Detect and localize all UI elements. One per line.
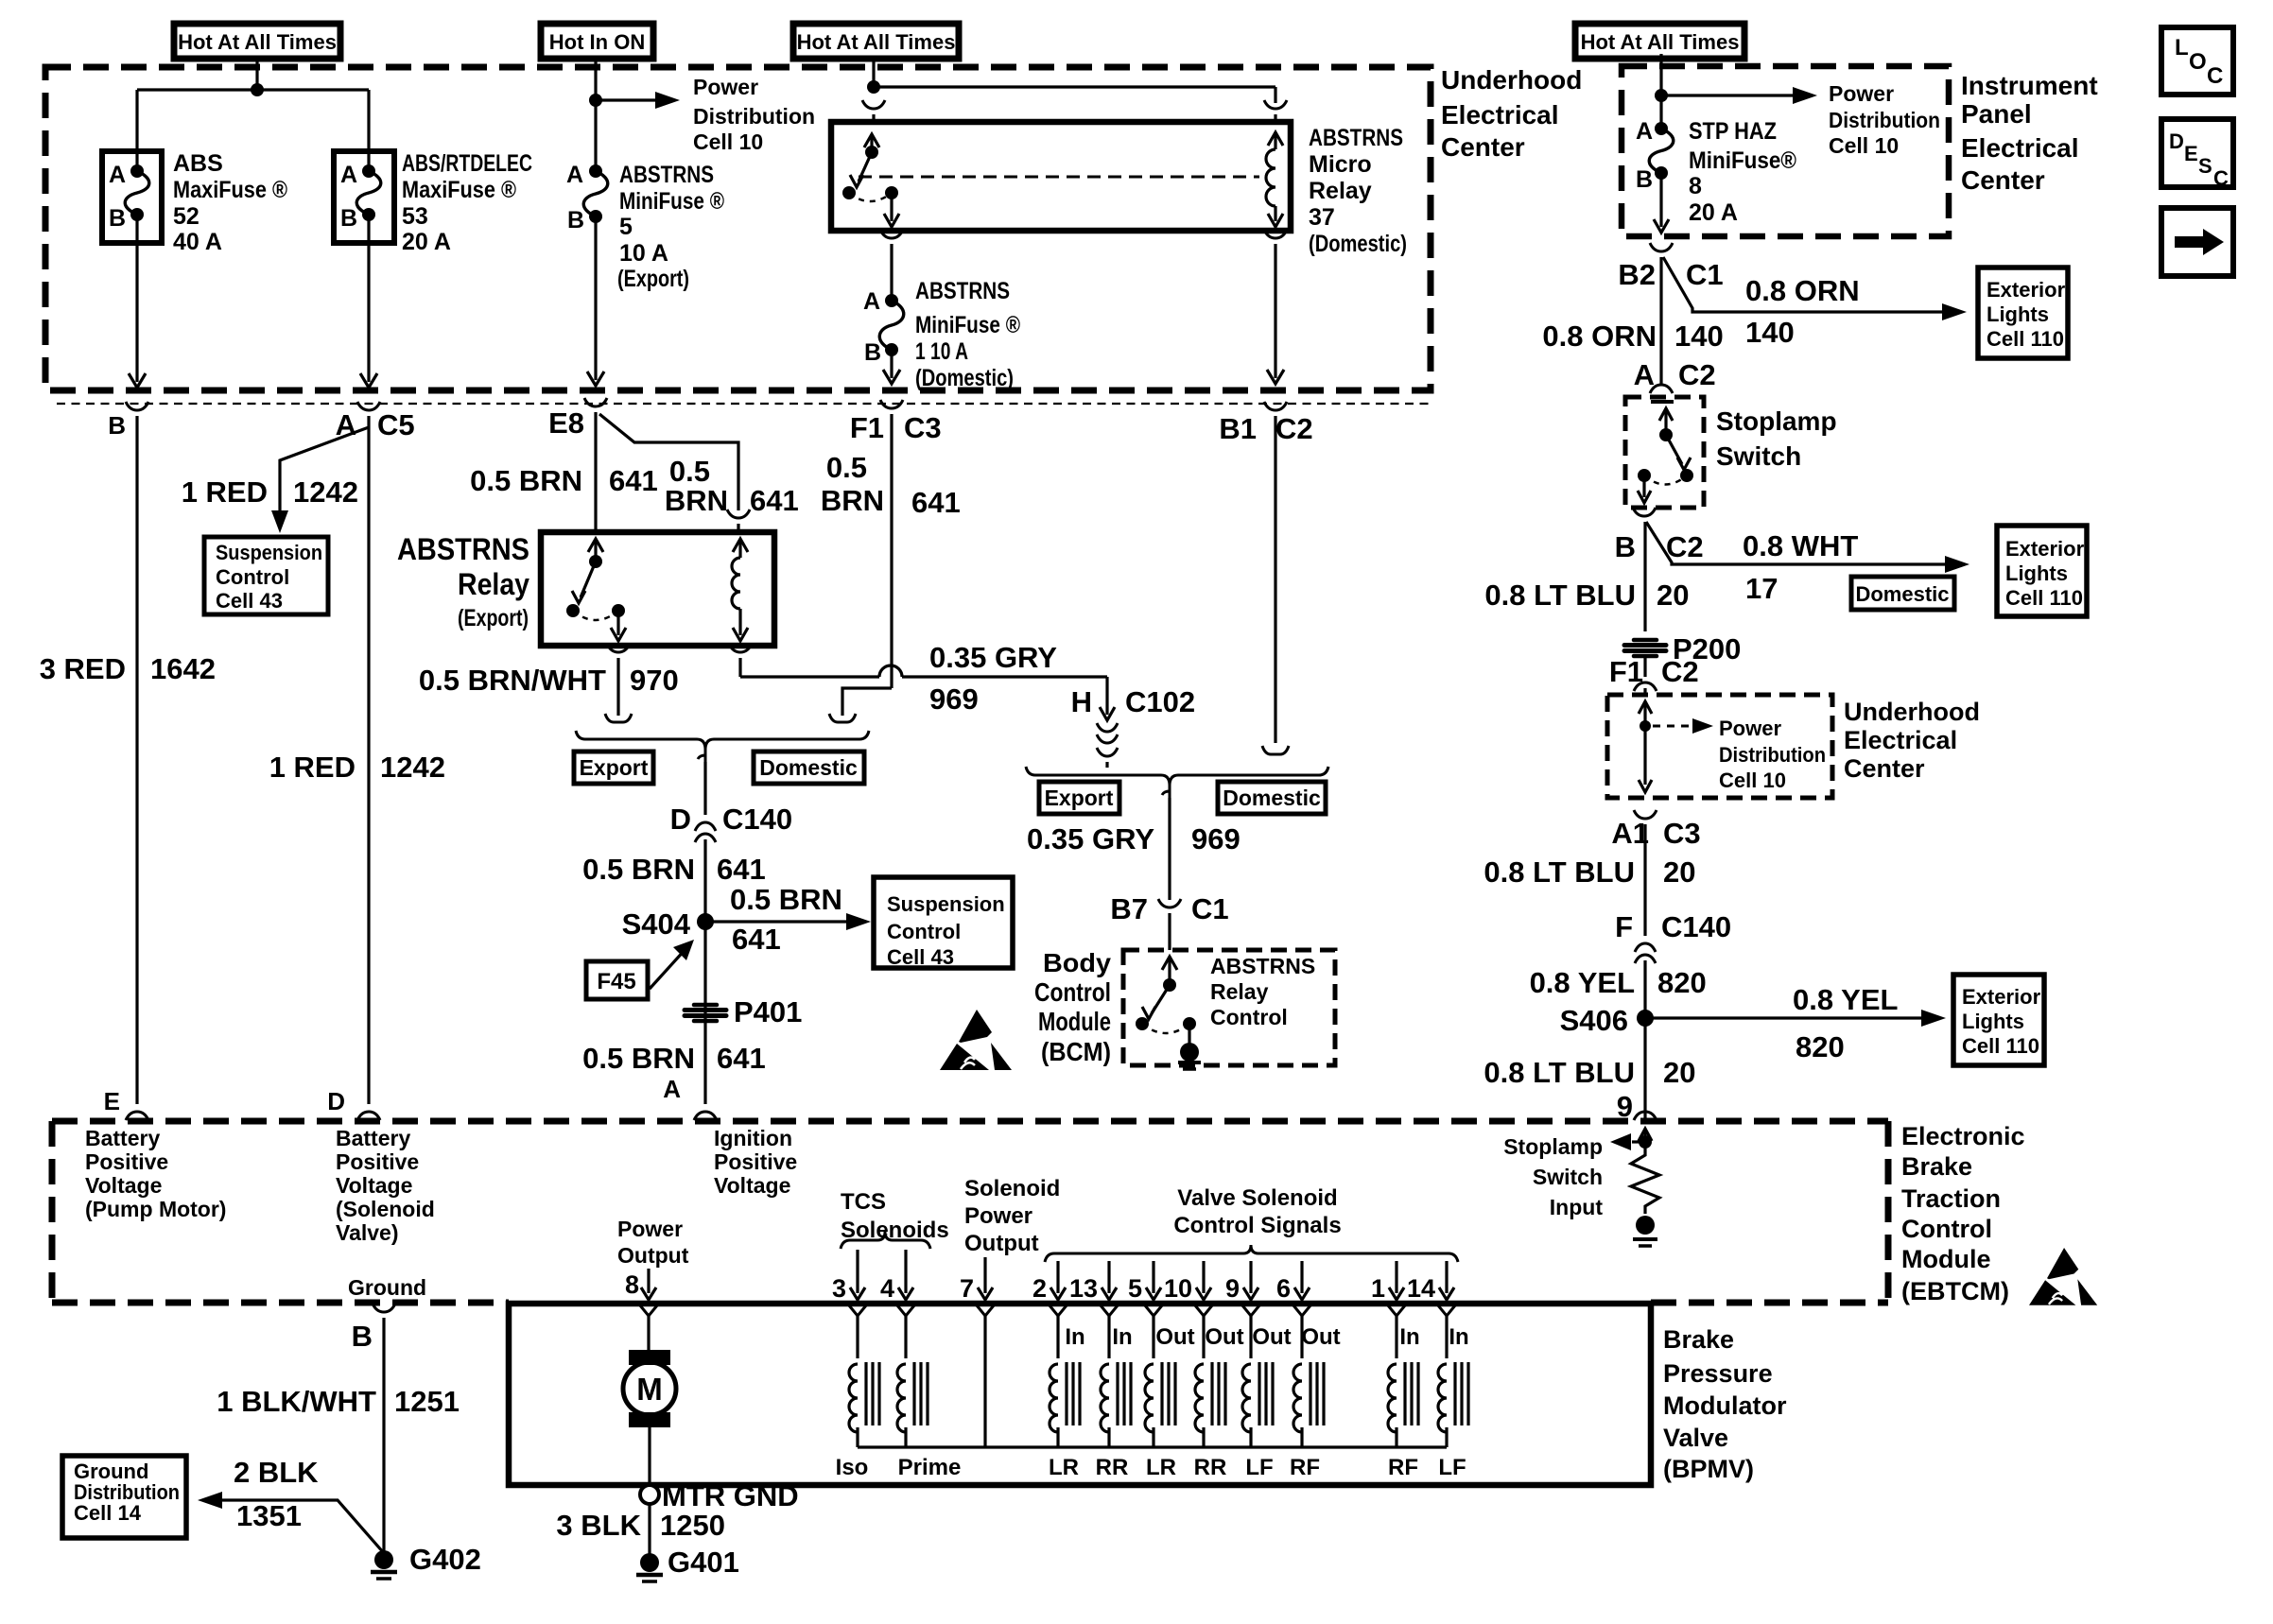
svg-text:C2: C2 [1661,655,1699,688]
svg-text:F: F [1615,910,1633,943]
svg-text:Electrical: Electrical [1844,726,1957,754]
svg-text:(Domestic): (Domestic) [915,365,1014,391]
svg-text:Exterior: Exterior [2005,537,2085,561]
svg-text:13: 13 [1069,1274,1098,1303]
svg-text:Relay: Relay [1309,178,1372,204]
svg-text:Ground: Ground [348,1275,426,1300]
svg-text:Electrical: Electrical [1441,100,1559,130]
svg-text:140: 140 [1674,320,1724,353]
svg-text:(Domestic): (Domestic) [1309,231,1407,257]
svg-text:Out: Out [1205,1324,1243,1350]
svg-text:ABS: ABS [173,150,223,177]
svg-text:20 A: 20 A [1689,199,1738,226]
svg-text:Hot At All Times: Hot At All Times [1581,30,1740,54]
svg-text:Hot In ON: Hot In ON [549,30,645,54]
svg-text:5: 5 [1128,1274,1142,1303]
svg-text:0.5 BRN/WHT: 0.5 BRN/WHT [419,664,606,697]
svg-text:820: 820 [1796,1030,1845,1063]
svg-text:Out: Out [1252,1324,1291,1350]
svg-text:B7: B7 [1110,892,1148,925]
svg-text:C1: C1 [1686,258,1724,291]
svg-text:LR: LR [1146,1455,1176,1480]
svg-text:E: E [2184,142,2198,165]
svg-text:641: 641 [732,923,781,956]
svg-text:0.8 YEL: 0.8 YEL [1793,983,1898,1016]
svg-text:2: 2 [1032,1274,1047,1303]
svg-text:14: 14 [1407,1274,1435,1303]
svg-text:Center: Center [1441,132,1525,162]
svg-text:Valve): Valve) [336,1220,399,1245]
svg-text:C140: C140 [1661,910,1731,943]
svg-text:Domestic: Domestic [1223,786,1321,810]
svg-text:0.8 WHT: 0.8 WHT [1743,529,1858,562]
svg-text:B1: B1 [1219,412,1257,445]
svg-text:E8: E8 [548,406,584,440]
svg-text:820: 820 [1657,966,1707,999]
svg-text:Lights: Lights [1987,302,2049,326]
svg-text:Cell 10: Cell 10 [1829,133,1899,158]
svg-text:Output: Output [964,1231,1039,1256]
svg-text:MiniFuse ®: MiniFuse ® [915,312,1020,338]
svg-text:C: C [2207,63,2223,89]
svg-text:Valve: Valve [1663,1424,1728,1452]
svg-text:(Export): (Export) [458,605,529,631]
svg-text:0.8 YEL: 0.8 YEL [1530,966,1635,999]
svg-text:Control Signals: Control Signals [1173,1213,1341,1238]
svg-text:10: 10 [1164,1274,1192,1303]
svg-text:Prime: Prime [898,1455,962,1480]
svg-text:1250: 1250 [660,1509,725,1542]
svg-text:A: A [109,162,126,188]
svg-text:Control: Control [1901,1215,1992,1243]
svg-text:Control: Control [887,920,961,943]
svg-text:969: 969 [929,682,979,716]
svg-text:ABSTRNS: ABSTRNS [619,162,714,188]
svg-text:Cell 10: Cell 10 [693,130,763,154]
svg-text:Relay: Relay [458,567,529,601]
svg-text:In: In [1065,1324,1084,1350]
svg-text:C102: C102 [1125,685,1195,718]
svg-text:B: B [352,1320,373,1353]
svg-text:970: 970 [630,664,679,697]
svg-text:P401: P401 [734,995,802,1028]
svg-text:ABS/RTDELEC: ABS/RTDELEC [402,150,532,177]
svg-text:641: 641 [609,464,658,497]
svg-text:O: O [2189,49,2207,75]
svg-text:0.5 BRN: 0.5 BRN [582,1042,695,1075]
svg-text:Power: Power [964,1203,1032,1229]
svg-text:9: 9 [1225,1274,1240,1303]
svg-text:20 A: 20 A [402,229,451,255]
svg-text:Cell 110: Cell 110 [2005,586,2083,610]
svg-text:0.8 LT BLU: 0.8 LT BLU [1484,855,1635,889]
svg-text:TCS: TCS [841,1189,886,1215]
svg-text:1642: 1642 [150,652,216,685]
svg-text:MaxiFuse ®: MaxiFuse ® [402,177,517,203]
svg-text:B: B [1615,530,1636,563]
svg-text:Battery: Battery [85,1126,160,1150]
svg-text:ABSTRNS: ABSTRNS [1309,125,1403,151]
svg-text:8: 8 [1689,173,1702,199]
svg-text:20: 20 [1657,579,1689,612]
svg-text:C: C [2213,166,2229,190]
svg-text:M: M [636,1372,663,1407]
svg-text:10 A: 10 A [619,240,668,267]
svg-text:3: 3 [832,1274,846,1303]
svg-text:(Export): (Export) [617,266,689,292]
svg-text:8: 8 [625,1270,639,1299]
svg-text:Stoplamp: Stoplamp [1503,1134,1603,1159]
svg-text:Export: Export [1045,786,1114,810]
svg-text:Voltage: Voltage [85,1173,162,1198]
svg-text:0.5 BRN: 0.5 BRN [730,883,842,916]
svg-text:BRN: BRN [821,484,884,517]
svg-text:Hot At All Times: Hot At All Times [797,30,956,54]
svg-text:(EBTCM): (EBTCM) [1901,1277,2009,1305]
svg-text:641: 641 [717,853,766,886]
svg-text:Brake: Brake [1663,1325,1734,1354]
svg-text:C3: C3 [1663,817,1701,850]
svg-text:ABSTRNS: ABSTRNS [397,532,529,566]
svg-text:Out: Out [1155,1324,1194,1350]
svg-text:Exterior: Exterior [1962,985,2041,1009]
svg-text:A: A [863,288,880,315]
svg-text:Body: Body [1043,948,1111,977]
svg-text:Voltage: Voltage [714,1173,790,1198]
svg-text:Lights: Lights [1962,1010,2024,1033]
svg-text:LF: LF [1438,1455,1466,1480]
svg-text:A: A [340,162,357,188]
svg-text:Solenoid: Solenoid [964,1176,1060,1201]
svg-text:In: In [1399,1324,1419,1350]
svg-text:7: 7 [960,1274,974,1303]
svg-text:Brake: Brake [1901,1152,1972,1181]
svg-text:H: H [1071,685,1092,718]
svg-text:Module: Module [1038,1007,1111,1036]
svg-text:5: 5 [619,214,633,240]
svg-text:(BPMV): (BPMV) [1663,1455,1754,1483]
svg-text:S406: S406 [1560,1004,1628,1037]
svg-text:4: 4 [880,1274,894,1303]
svg-text:C2: C2 [1666,530,1704,563]
svg-text:L: L [2175,35,2189,60]
svg-text:Power: Power [1719,717,1781,740]
svg-text:E: E [104,1087,120,1115]
svg-text:BRN: BRN [665,484,728,517]
svg-text:LF: LF [1245,1455,1273,1480]
svg-text:A: A [1636,118,1653,145]
svg-text:Domestic: Domestic [1855,582,1949,606]
svg-text:Underhood: Underhood [1844,698,1980,726]
svg-text:Control: Control [1210,1005,1288,1029]
svg-text:Iso: Iso [836,1455,869,1480]
svg-text:In: In [1449,1324,1468,1350]
svg-text:1 RED: 1 RED [182,475,268,509]
svg-text:D: D [670,803,691,836]
svg-text:Positive: Positive [714,1149,797,1174]
svg-text:0.5: 0.5 [826,451,867,484]
svg-text:A: A [1634,358,1655,391]
svg-text:MaxiFuse ®: MaxiFuse ® [173,177,288,203]
svg-text:B: B [340,205,357,232]
svg-text:Power: Power [1829,81,1894,106]
svg-text:Cell 110: Cell 110 [1987,327,2064,351]
svg-text:0.35 GRY: 0.35 GRY [929,641,1057,674]
svg-text:MiniFuse®: MiniFuse® [1689,147,1797,174]
svg-text:3 BLK: 3 BLK [556,1509,641,1542]
svg-text:MiniFuse ®: MiniFuse ® [619,188,724,215]
svg-text:S404: S404 [622,907,691,941]
svg-text:Stoplamp: Stoplamp [1716,406,1837,436]
svg-text:Export: Export [580,755,649,780]
svg-text:G401: G401 [668,1546,739,1579]
svg-text:Underhood: Underhood [1441,65,1582,95]
svg-text:Switch: Switch [1533,1165,1603,1189]
svg-text:Micro: Micro [1309,151,1372,178]
svg-text:0.8 ORN: 0.8 ORN [1542,320,1657,353]
svg-text:Input: Input [1550,1195,1604,1219]
svg-text:D: D [2169,130,2184,153]
svg-text:1242: 1242 [293,475,358,509]
svg-text:B: B [864,339,881,366]
svg-text:Cell 110: Cell 110 [1962,1034,2039,1058]
svg-text:Positive: Positive [336,1149,419,1174]
svg-text:Cell 14: Cell 14 [74,1501,142,1525]
svg-text:RR: RR [1194,1455,1227,1480]
svg-text:641: 641 [911,486,961,519]
svg-text:Ignition: Ignition [714,1126,792,1150]
svg-text:Modulator: Modulator [1663,1391,1787,1420]
svg-text:9: 9 [1617,1090,1633,1123]
svg-text:40 A: 40 A [173,229,222,255]
svg-text:Control: Control [1034,977,1111,1007]
svg-text:Power: Power [617,1217,683,1241]
svg-text:C140: C140 [722,803,792,836]
svg-text:ABSTRNS: ABSTRNS [1210,954,1315,978]
svg-text:C3: C3 [904,411,942,444]
svg-text:LR: LR [1049,1455,1079,1480]
svg-text:0.8 ORN: 0.8 ORN [1745,274,1860,307]
svg-text:B: B [109,205,126,232]
svg-text:1351: 1351 [236,1499,302,1532]
svg-text:Lights: Lights [2005,561,2068,585]
svg-text:(Solenoid: (Solenoid [336,1197,435,1221]
svg-text:Suspension: Suspension [216,541,322,564]
svg-text:6: 6 [1276,1274,1291,1303]
svg-text:RR: RR [1096,1455,1129,1480]
svg-text:140: 140 [1745,316,1795,349]
svg-text:Suspension: Suspension [887,892,1005,916]
svg-text:1 RED: 1 RED [269,751,356,784]
svg-text:2 BLK: 2 BLK [234,1456,319,1489]
svg-text:1: 1 [1371,1274,1385,1303]
svg-text:Instrument: Instrument [1961,71,2098,100]
svg-text:Distribution: Distribution [1829,108,1940,132]
svg-text:Distribution: Distribution [693,104,815,129]
svg-text:B: B [108,411,126,440]
svg-text:1251: 1251 [394,1385,460,1418]
svg-text:53: 53 [402,203,428,230]
svg-text:Power: Power [693,75,758,99]
svg-text:Domestic: Domestic [759,755,858,780]
svg-text:Electrical: Electrical [1961,133,2079,163]
svg-text:(Pump Motor): (Pump Motor) [85,1197,226,1221]
svg-text:0.5 BRN: 0.5 BRN [470,464,582,497]
svg-text:Electronic: Electronic [1901,1122,2025,1150]
svg-text:20: 20 [1663,1056,1695,1089]
svg-text:1242: 1242 [380,751,445,784]
svg-text:641: 641 [717,1042,766,1075]
svg-text:1 10 A: 1 10 A [915,338,968,365]
svg-text:Control: Control [216,565,289,589]
svg-text:Out: Out [1301,1324,1340,1350]
svg-text:0.8 LT BLU: 0.8 LT BLU [1484,579,1636,612]
svg-text:B: B [1636,166,1653,193]
svg-text:F1: F1 [850,411,884,444]
svg-text:Panel: Panel [1961,99,2032,129]
svg-text:C2: C2 [1275,412,1313,445]
svg-text:Center: Center [1961,165,2045,195]
svg-text:A: A [566,162,583,188]
svg-text:MTR GND: MTR GND [662,1479,799,1512]
svg-text:C2: C2 [1678,358,1716,391]
svg-text:RF: RF [1388,1455,1418,1480]
svg-text:0.5 BRN: 0.5 BRN [582,853,695,886]
svg-text:969: 969 [1191,822,1241,855]
svg-text:Cell 43: Cell 43 [887,945,954,969]
svg-text:S: S [2198,154,2212,178]
svg-text:G402: G402 [409,1543,481,1576]
svg-text:A1: A1 [1611,817,1649,850]
svg-text:Battery: Battery [336,1126,410,1150]
svg-text:1 BLK/WHT: 1 BLK/WHT [217,1385,376,1418]
svg-text:0.8 LT BLU: 0.8 LT BLU [1484,1056,1635,1089]
svg-text:Output: Output [617,1243,689,1268]
svg-text:A: A [663,1075,681,1103]
svg-text:Positive: Positive [85,1149,168,1174]
svg-text:Pressure: Pressure [1663,1359,1773,1388]
svg-text:STP HAZ: STP HAZ [1689,118,1777,145]
svg-text:0.5: 0.5 [669,455,710,488]
svg-text:(BCM): (BCM) [1041,1037,1111,1066]
svg-text:B2: B2 [1618,258,1656,291]
svg-text:F45: F45 [597,969,635,994]
svg-text:Switch: Switch [1716,441,1801,471]
svg-text:ABSTRNS: ABSTRNS [915,278,1010,304]
svg-text:RF: RF [1290,1455,1320,1480]
svg-text:D: D [327,1087,345,1115]
svg-text:Distribution: Distribution [1719,743,1826,767]
svg-text:Module: Module [1901,1245,1991,1273]
svg-text:Hot At All Times: Hot At All Times [178,30,337,54]
svg-text:641: 641 [750,484,799,517]
svg-text:C1: C1 [1191,892,1229,925]
svg-text:B: B [567,207,584,233]
svg-text:Center: Center [1844,754,1925,783]
svg-text:0.35 GRY: 0.35 GRY [1027,822,1154,855]
svg-text:Traction: Traction [1901,1184,2001,1213]
svg-text:Relay: Relay [1210,979,1269,1004]
svg-text:3 RED: 3 RED [40,652,126,685]
svg-text:Cell 43: Cell 43 [216,589,283,613]
svg-text:37: 37 [1309,204,1335,231]
svg-text:17: 17 [1745,572,1778,605]
svg-text:Valve Solenoid: Valve Solenoid [1177,1185,1337,1211]
svg-text:52: 52 [173,203,200,230]
svg-text:Cell 10: Cell 10 [1719,769,1786,792]
svg-text:Exterior: Exterior [1987,278,2066,302]
svg-text:Voltage: Voltage [336,1173,412,1198]
svg-text:In: In [1112,1324,1132,1350]
svg-text:C5: C5 [377,408,415,441]
svg-text:20: 20 [1663,855,1695,889]
